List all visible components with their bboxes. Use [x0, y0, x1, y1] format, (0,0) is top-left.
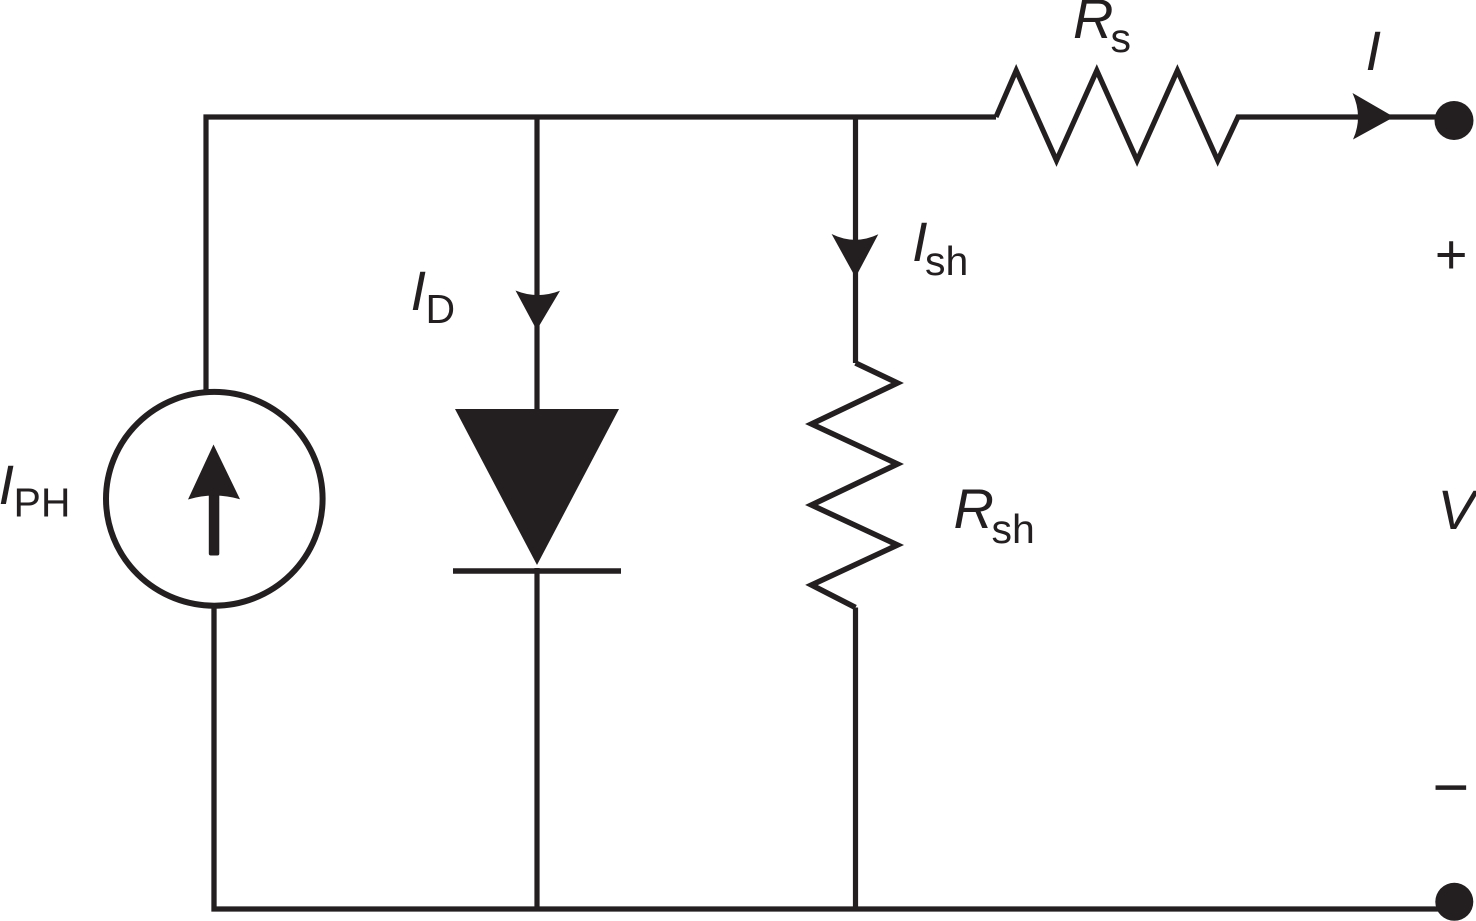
svg-text:I: I: [411, 259, 427, 322]
svg-text:R: R: [1073, 0, 1113, 50]
svg-text:+: +: [1434, 223, 1467, 286]
svg-text:I: I: [1366, 19, 1382, 82]
svg-text:D: D: [426, 286, 456, 332]
svg-text:sh: sh: [925, 238, 968, 284]
svg-text:−: −: [1432, 752, 1469, 822]
svg-text:s: s: [1111, 15, 1132, 61]
svg-text:V: V: [1438, 478, 1476, 541]
svg-text:R: R: [954, 477, 994, 540]
svg-text:PH: PH: [14, 480, 71, 526]
svg-text:I: I: [0, 453, 14, 516]
svg-text:sh: sh: [992, 506, 1035, 552]
